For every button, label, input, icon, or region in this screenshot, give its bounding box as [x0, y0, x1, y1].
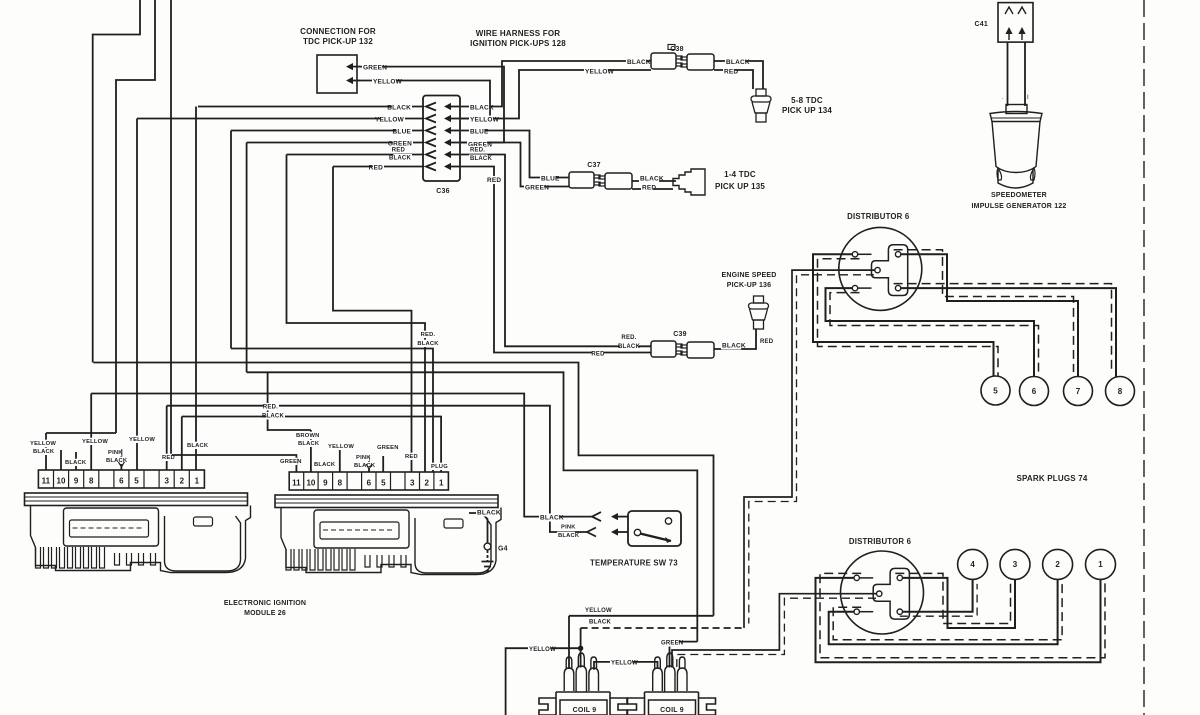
svg-text:BLACK: BLACK: [33, 449, 55, 455]
svg-text:BROWN: BROWN: [296, 433, 320, 439]
svg-text:C37: C37: [587, 162, 600, 169]
svg-text:BLUE: BLUE: [541, 176, 560, 183]
svg-text:6: 6: [119, 477, 124, 486]
svg-text:BLACK: BLACK: [640, 176, 664, 183]
svg-text:3: 3: [410, 479, 415, 488]
svg-text:BLACK: BLACK: [477, 510, 501, 517]
svg-text:PICK UP 135: PICK UP 135: [715, 182, 765, 191]
svg-text:8: 8: [338, 479, 343, 488]
svg-text:1: 1: [195, 477, 200, 486]
svg-text:YELLOW: YELLOW: [328, 444, 354, 450]
svg-text:PICK-UP 136: PICK-UP 136: [727, 282, 771, 289]
svg-text:PICK UP 134: PICK UP 134: [782, 106, 832, 115]
svg-text:C39: C39: [673, 331, 686, 338]
svg-text:RED.: RED.: [263, 405, 278, 411]
svg-text:1: 1: [1098, 560, 1103, 569]
svg-text:10: 10: [57, 477, 66, 486]
svg-text:BLACK: BLACK: [354, 463, 376, 469]
svg-text:11: 11: [42, 477, 51, 486]
svg-text:BLUE: BLUE: [393, 129, 412, 136]
svg-text:MODULE 26: MODULE 26: [244, 610, 286, 617]
svg-text:5: 5: [134, 477, 139, 486]
svg-text:YELLOW: YELLOW: [375, 117, 405, 124]
svg-text:BLACK: BLACK: [106, 458, 128, 464]
svg-text:3: 3: [1013, 560, 1018, 569]
svg-text:10: 10: [306, 479, 315, 488]
svg-text:BLACK: BLACK: [540, 515, 564, 522]
svg-text:RED: RED: [760, 339, 774, 345]
svg-text:GREEN: GREEN: [661, 641, 683, 647]
svg-text:6: 6: [1032, 387, 1037, 396]
svg-text:C36: C36: [436, 188, 449, 195]
svg-text:4: 4: [970, 560, 975, 569]
svg-text:BLACK: BLACK: [627, 59, 651, 66]
svg-text:5-8 TDC: 5-8 TDC: [791, 96, 823, 105]
svg-text:G4: G4: [498, 546, 508, 553]
svg-text:RED.: RED.: [621, 335, 636, 341]
svg-text:COIL 9: COIL 9: [573, 707, 597, 714]
svg-text:RED.: RED.: [421, 332, 436, 338]
svg-text:SPEEDOMETER: SPEEDOMETER: [991, 192, 1047, 199]
svg-text:ELECTRONIC IGNITION: ELECTRONIC IGNITION: [224, 600, 306, 607]
svg-text:BLACK: BLACK: [417, 341, 439, 347]
svg-text:6: 6: [367, 479, 372, 488]
svg-text:YELLOW: YELLOW: [529, 647, 556, 653]
svg-text:YELLOW: YELLOW: [611, 661, 638, 667]
svg-text:RED: RED: [487, 177, 501, 184]
svg-text:ENGINE SPEED: ENGINE SPEED: [722, 272, 777, 279]
svg-text:2: 2: [180, 477, 185, 486]
svg-text:RED: RED: [591, 352, 605, 358]
svg-text:BLACK: BLACK: [298, 441, 320, 447]
svg-text:BLACK: BLACK: [558, 533, 580, 539]
svg-text:YELLOW: YELLOW: [373, 79, 403, 86]
svg-text:2: 2: [1055, 560, 1060, 569]
svg-text:BLACK: BLACK: [470, 105, 494, 112]
svg-text:GREEN: GREEN: [363, 65, 387, 72]
svg-text:11: 11: [292, 479, 301, 488]
svg-text:RED: RED: [162, 455, 175, 461]
svg-text:TDC PICK-UP 132: TDC PICK-UP 132: [303, 37, 373, 46]
svg-text:RED: RED: [724, 69, 738, 76]
svg-text:RED: RED: [369, 165, 383, 172]
svg-text:BLACK: BLACK: [65, 460, 87, 466]
svg-text:BLACK: BLACK: [389, 156, 411, 162]
svg-text:DISTRIBUTOR 6: DISTRIBUTOR 6: [849, 537, 912, 546]
svg-text:3: 3: [164, 477, 169, 486]
svg-text:5: 5: [381, 479, 386, 488]
svg-text:5: 5: [993, 386, 998, 395]
svg-text:DISTRIBUTOR 6: DISTRIBUTOR 6: [847, 212, 910, 221]
svg-text:PINK: PINK: [561, 525, 576, 531]
svg-text:GREEN: GREEN: [525, 185, 549, 192]
svg-text:RED: RED: [405, 454, 418, 460]
svg-text:1: 1: [439, 479, 444, 488]
svg-text:BLACK: BLACK: [618, 344, 640, 350]
svg-text:PLUG: PLUG: [431, 464, 448, 470]
svg-text:BLACK: BLACK: [589, 620, 611, 626]
svg-text:BLACK: BLACK: [470, 156, 492, 162]
svg-text:GREEN: GREEN: [280, 459, 302, 465]
svg-text:IMPULSE GENERATOR 122: IMPULSE GENERATOR 122: [972, 203, 1067, 210]
svg-text:BLACK: BLACK: [187, 443, 209, 449]
svg-text:BLACK: BLACK: [726, 59, 750, 66]
svg-text:PINK: PINK: [356, 455, 371, 461]
svg-text:RED.: RED.: [470, 148, 485, 154]
svg-text:WIRE HARNESS FOR: WIRE HARNESS FOR: [476, 29, 561, 38]
svg-text:C41: C41: [975, 21, 988, 28]
svg-text:CONNECTION FOR: CONNECTION FOR: [300, 27, 376, 36]
svg-text:8: 8: [1118, 387, 1123, 396]
svg-text:1-4 TDC: 1-4 TDC: [724, 170, 756, 179]
svg-text:BLUE: BLUE: [470, 129, 489, 136]
svg-text:BLACK: BLACK: [262, 414, 284, 420]
svg-text:YELLOW: YELLOW: [129, 437, 155, 443]
svg-text:9: 9: [74, 477, 79, 486]
svg-text:9: 9: [323, 479, 328, 488]
svg-text:YELLOW: YELLOW: [585, 69, 615, 76]
svg-text:PINK: PINK: [108, 450, 123, 456]
svg-text:7: 7: [1076, 387, 1081, 396]
svg-text:YELLOW: YELLOW: [82, 439, 108, 445]
svg-text:BLACK: BLACK: [722, 343, 746, 350]
svg-text:YELLOW: YELLOW: [585, 608, 612, 614]
svg-text:8: 8: [89, 477, 94, 486]
svg-text:GREEN: GREEN: [377, 445, 399, 451]
svg-text:SPARK PLUGS 74: SPARK PLUGS 74: [1016, 474, 1087, 483]
svg-text:2: 2: [424, 479, 429, 488]
svg-text:RED: RED: [392, 148, 406, 154]
svg-text:RED: RED: [642, 185, 656, 192]
svg-text:BLACK: BLACK: [387, 105, 411, 112]
svg-text:BLACK: BLACK: [314, 462, 336, 468]
svg-text:TEMPERATURE SW 73: TEMPERATURE SW 73: [590, 559, 678, 568]
svg-text:IGNITION PICK-UPS 128: IGNITION PICK-UPS 128: [470, 39, 566, 48]
svg-text:YELLOW: YELLOW: [30, 441, 56, 447]
svg-text:YELLOW: YELLOW: [470, 117, 500, 124]
svg-text:COIL 9: COIL 9: [660, 707, 684, 714]
